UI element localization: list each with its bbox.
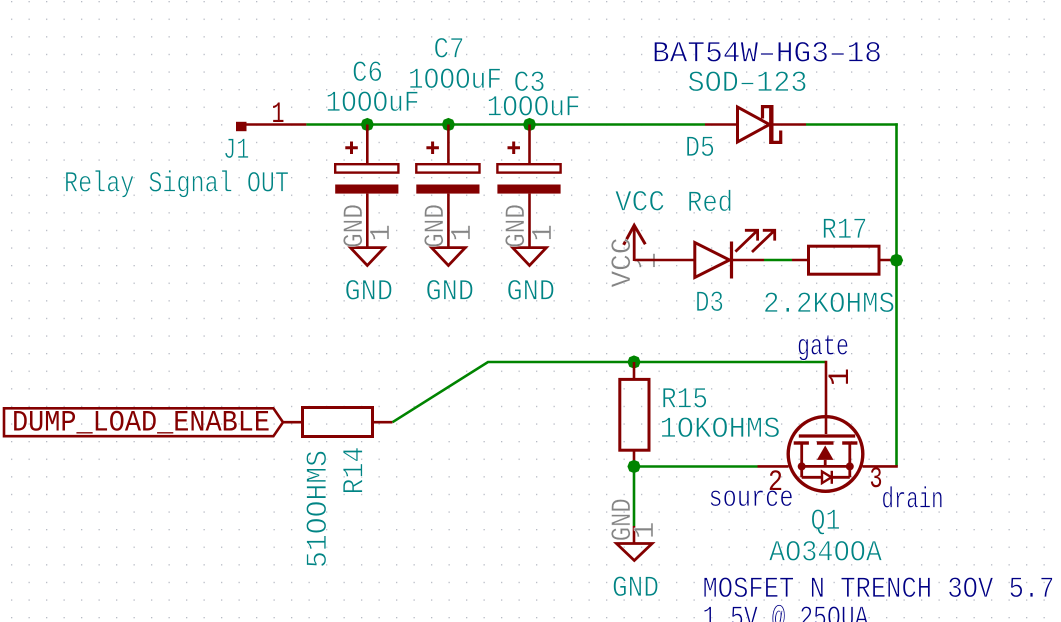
junction at R15 top [627, 355, 640, 368]
diode D5 schottky [705, 105, 806, 144]
Q1 source pin lead [758, 465, 789, 468]
svg-text:GND: GND [345, 276, 394, 310]
svg-text:1: 1 [629, 522, 662, 539]
wire diagonal R14 to gate net [393, 362, 826, 422]
svg-text:SOD–123: SOD–123 [688, 67, 808, 101]
svg-text:DUMP_LOAD_ENABLE: DUMP_LOAD_ENABLE [12, 407, 270, 441]
svg-text:1OOOuF: 1OOOuF [487, 92, 581, 126]
junction at C6 [361, 118, 374, 131]
resistor R14 [303, 408, 393, 437]
svg-text:1: 1 [527, 224, 560, 241]
svg-text:C6: C6 [352, 57, 383, 91]
wire R15 bottom to ground [633, 467, 636, 527]
hierarchical label DUMP_LOAD_ENABLE [4, 407, 283, 441]
svg-text:1: 1 [365, 224, 398, 241]
svg-text:D3: D3 [695, 287, 724, 321]
svg-text:1OOOuF: 1OOOuF [326, 87, 420, 121]
ground symbol below C3 [502, 204, 560, 266]
svg-text:Red: Red [687, 187, 733, 221]
ground pin lead [633, 526, 636, 544]
svg-text:drain: drain [882, 484, 944, 518]
wire main horizontal net [306, 123, 705, 126]
svg-text:Relay Signal OUT: Relay Signal OUT [64, 168, 289, 202]
gate wire vertical into Q1 [825, 361, 828, 434]
wire vertical right bus [895, 123, 898, 466]
LED D3 [695, 230, 775, 278]
svg-text:R14: R14 [339, 447, 373, 495]
svg-text:C7: C7 [434, 34, 465, 68]
svg-text:R17: R17 [822, 214, 868, 248]
power symbol VCC [608, 225, 664, 287]
svg-text:gate: gate [797, 331, 849, 365]
svg-text:GND: GND [612, 572, 659, 606]
capacitor C7 [416, 125, 479, 248]
svg-text:AO34OOA: AO34OOA [769, 537, 882, 571]
transistor Q1 MOSFET body [788, 417, 863, 492]
ground symbol below C6 [340, 204, 398, 266]
junction at C7 [442, 118, 455, 131]
svg-text:51OOHMS: 51OOHMS [302, 450, 336, 568]
resistor R15 [620, 362, 649, 467]
svg-text:Q1: Q1 [811, 505, 841, 539]
svg-text:D5: D5 [685, 132, 715, 166]
ground symbol below C7 [421, 204, 479, 266]
svg-text:1: 1 [446, 224, 479, 241]
resistor R17 [792, 246, 897, 274]
junction at C3 [523, 118, 536, 131]
wire from D5 cathode to right corner [806, 123, 898, 126]
wire D3 cathode to R17 [764, 259, 792, 262]
capacitor C3 [497, 125, 560, 248]
svg-text:source: source [709, 482, 794, 516]
svg-text:1: 1 [824, 368, 858, 386]
connector J1 pin 1 square pad [236, 122, 247, 131]
Q1 drain pin lead [863, 465, 898, 468]
wire label to R14 [283, 421, 303, 424]
svg-text:GND: GND [507, 276, 556, 310]
svg-text:1OKOHMS: 1OKOHMS [660, 413, 781, 447]
svg-text:J1: J1 [223, 134, 250, 168]
wire R15 bottom to Q1 source [634, 465, 758, 468]
svg-text:1: 1 [272, 98, 285, 132]
junction at R17 output [890, 254, 903, 267]
ground symbol below R15 [608, 498, 662, 560]
wire VCC to D3 anode [635, 259, 695, 262]
svg-text:VCC: VCC [615, 187, 665, 221]
svg-text:2.2KOHMS: 2.2KOHMS [763, 288, 895, 322]
junction at R15 bottom [627, 460, 640, 473]
connector J1 pin 1 lead [247, 123, 307, 126]
svg-text:1.5V @ 25OUA: 1.5V @ 25OUA [703, 602, 869, 622]
capacitor C6 [335, 125, 398, 248]
svg-text:GND: GND [426, 276, 475, 310]
